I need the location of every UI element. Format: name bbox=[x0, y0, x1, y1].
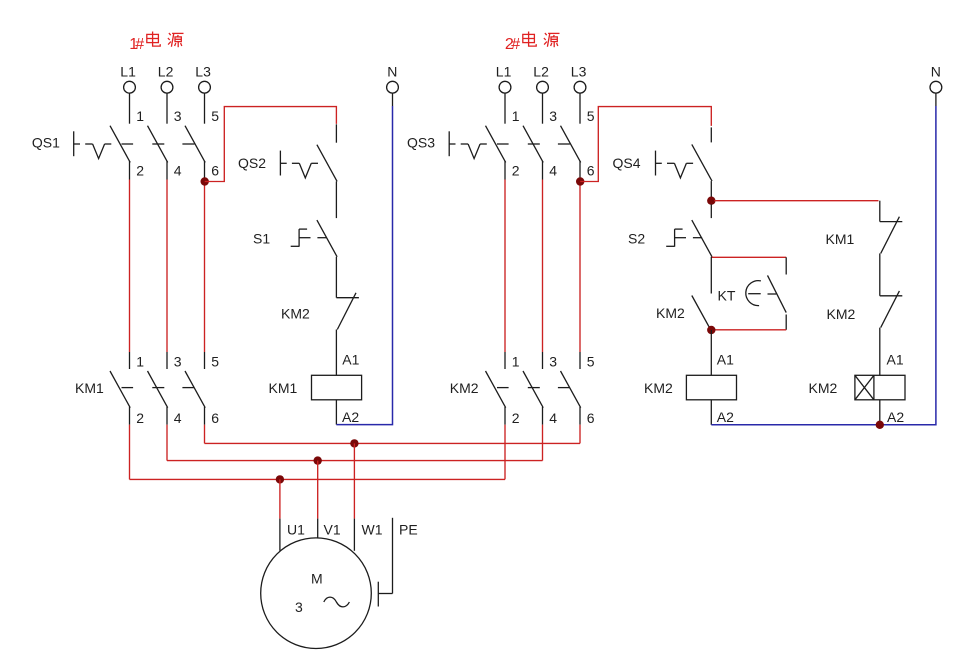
neutral terminal N (source 1) bbox=[387, 64, 399, 94]
wire node to KM2 coil A1 bbox=[710, 330, 712, 375]
terminal L1 (source 2) bbox=[496, 64, 512, 94]
svg-text:A1: A1 bbox=[342, 352, 359, 368]
wire tap to right branch (red) bbox=[714, 200, 878, 202]
wire QS2 to S1 bbox=[335, 181, 337, 218]
node pole6 tap (QS3 to QS4) bbox=[576, 177, 584, 185]
svg-text:KM2: KM2 bbox=[450, 380, 479, 396]
svg-text:6: 6 bbox=[211, 162, 219, 178]
wire motor V1 lead bbox=[317, 519, 319, 538]
svg-text:L2: L2 bbox=[533, 64, 549, 80]
svg-text:1: 1 bbox=[136, 108, 144, 124]
svg-text:5: 5 bbox=[211, 353, 219, 369]
svg-text:KM1: KM1 bbox=[826, 231, 855, 247]
svg-text:5: 5 bbox=[587, 108, 595, 124]
bus W (phase 3) bbox=[205, 442, 581, 444]
svg-text:A2: A2 bbox=[887, 409, 904, 425]
wire QS4 to tap node bbox=[710, 181, 712, 201]
svg-text:U1: U1 bbox=[287, 522, 305, 538]
svg-text:L3: L3 bbox=[571, 64, 587, 80]
wire QS3-6 tap to QS4 top bbox=[580, 107, 711, 182]
svg-text:4: 4 bbox=[549, 410, 557, 426]
wire KM2-6 down bbox=[579, 425, 581, 444]
contact KM2 NO auxiliary (self-hold) bbox=[656, 296, 712, 333]
svg-text:1: 1 bbox=[136, 353, 144, 369]
svg-text:2: 2 bbox=[136, 162, 144, 178]
label 2#电源 (source 2 name) bbox=[505, 32, 560, 53]
svg-text:V1: V1 bbox=[324, 522, 341, 538]
svg-text:#: # bbox=[135, 36, 144, 53]
svg-text:S1: S1 bbox=[253, 231, 270, 247]
svg-text:N: N bbox=[931, 64, 941, 80]
wire QS1-5 to KM1-5 bbox=[204, 180, 206, 353]
svg-text:A2: A2 bbox=[342, 409, 359, 425]
wire motor U1 feeder (red) bbox=[279, 479, 281, 518]
node bus U to motor bbox=[276, 475, 284, 483]
wire motor V1 feeder (red) bbox=[317, 461, 319, 519]
svg-text:2: 2 bbox=[512, 162, 520, 178]
disconnect switch QS1 (3-pole) bbox=[32, 93, 219, 179]
svg-text:A1: A1 bbox=[717, 352, 734, 368]
svg-text:3: 3 bbox=[174, 108, 182, 124]
svg-text:6: 6 bbox=[587, 162, 595, 178]
wire S2 to KM2 NO contact bbox=[710, 257, 712, 294]
svg-text:PE: PE bbox=[399, 522, 418, 538]
svg-text:N: N bbox=[387, 64, 397, 80]
svg-text:1: 1 bbox=[512, 108, 520, 124]
wire KM1 coil A2 to N (blue) bbox=[336, 106, 392, 425]
node pole6 tap (QS1 to QS2) bbox=[201, 177, 209, 185]
wire QS3-3 to KM2-3 bbox=[542, 180, 544, 353]
contact KM2 NC auxiliary (right) bbox=[827, 291, 903, 328]
svg-text:3: 3 bbox=[174, 353, 182, 369]
svg-text:4: 4 bbox=[549, 162, 557, 178]
disconnect switch QS3 (3-pole) bbox=[407, 93, 595, 179]
contact KM2 NC auxiliary (left) bbox=[281, 293, 359, 330]
svg-text:A2: A2 bbox=[717, 409, 734, 425]
coil KM2 (delayed, with X box) bbox=[809, 375, 906, 400]
bus U (phase 1) bbox=[130, 478, 506, 480]
svg-text:3: 3 bbox=[295, 599, 303, 615]
wire motor W1 lead bbox=[353, 519, 355, 551]
pushbutton S1 bbox=[253, 220, 337, 257]
terminal L1 (source 1) bbox=[120, 64, 136, 94]
svg-text:5: 5 bbox=[587, 353, 595, 369]
wire N2 stub bbox=[935, 93, 937, 106]
svg-text:6: 6 bbox=[587, 410, 595, 426]
node bus V to motor bbox=[314, 456, 322, 464]
coil KM2 bbox=[644, 375, 737, 400]
wire KM2-2 down bbox=[504, 425, 506, 480]
svg-text:1: 1 bbox=[512, 353, 520, 369]
terminal L2 (source 2) bbox=[533, 64, 549, 94]
disconnect switch QS4 (control, 1-pole) bbox=[613, 127, 713, 181]
wire motor W1 feeder (red) bbox=[353, 443, 355, 518]
svg-text:KM2: KM2 bbox=[827, 306, 856, 322]
svg-text:A1: A1 bbox=[887, 352, 904, 368]
node bus W to motor bbox=[350, 439, 358, 447]
terminal L2 (source 1) bbox=[158, 64, 174, 94]
disconnect switch QS2 (control, 1-pole) bbox=[238, 124, 337, 181]
svg-text:3: 3 bbox=[549, 353, 557, 369]
svg-text:KT: KT bbox=[718, 288, 736, 304]
wire KM1-6 down bbox=[204, 425, 206, 444]
svg-text:L1: L1 bbox=[496, 64, 512, 80]
svg-text:QS4: QS4 bbox=[613, 155, 641, 171]
svg-text:2: 2 bbox=[512, 410, 520, 426]
wire KM2 NC to KM1 coil A1 bbox=[335, 330, 337, 376]
terminal L3 (source 2) bbox=[571, 64, 587, 94]
svg-text:L3: L3 bbox=[195, 64, 211, 80]
wire KM1-2 down bbox=[129, 425, 131, 480]
svg-text:KM2: KM2 bbox=[809, 380, 838, 396]
svg-text:L1: L1 bbox=[120, 64, 136, 80]
motor M 3~ bbox=[261, 538, 372, 649]
svg-text:L2: L2 bbox=[158, 64, 174, 80]
svg-text:M: M bbox=[311, 571, 323, 587]
svg-text:#: # bbox=[511, 36, 520, 53]
ground PE connection bbox=[378, 518, 392, 607]
wire tap to S2 bbox=[710, 204, 712, 218]
svg-text:QS2: QS2 bbox=[238, 155, 266, 171]
svg-text:QS1: QS1 bbox=[32, 135, 60, 151]
wire KM1 NC to KM2 NC bbox=[879, 253, 881, 295]
label 1#电源 (source 1 name) bbox=[129, 32, 183, 53]
timer contact KT (delay close) bbox=[718, 257, 787, 330]
contactor KM1 main contacts (3-pole) bbox=[75, 352, 219, 426]
svg-text:KM2: KM2 bbox=[281, 306, 310, 322]
node KM2 NO bottom bbox=[707, 326, 715, 334]
node KM2 delay coil to N bus bbox=[876, 421, 884, 429]
bus V (phase 2) bbox=[167, 460, 543, 462]
wire KM2 coil A2 down bbox=[710, 400, 712, 425]
wire S2 to KT branch (red) bbox=[711, 256, 786, 258]
svg-text:KM1: KM1 bbox=[269, 380, 298, 396]
svg-text:S2: S2 bbox=[628, 231, 645, 247]
wire S1 to KM2 NC contact bbox=[335, 257, 337, 298]
coil KM1 bbox=[269, 375, 362, 400]
wire KM1-4 down bbox=[166, 425, 168, 461]
wire KM2 delay coil A2 down bbox=[879, 400, 881, 425]
svg-text:KM2: KM2 bbox=[644, 380, 673, 396]
svg-text:QS3: QS3 bbox=[407, 135, 435, 151]
wire right branch top bbox=[879, 201, 881, 222]
wire KM2-4 down bbox=[542, 425, 544, 461]
wire control N bus (blue) bbox=[711, 106, 936, 425]
svg-text:6: 6 bbox=[211, 410, 219, 426]
wire N1 stub bbox=[392, 93, 394, 106]
wire QS3-5 to KM2-5 bbox=[579, 180, 581, 353]
svg-text:3: 3 bbox=[549, 108, 557, 124]
wire KT bottom to node (red) bbox=[711, 329, 786, 331]
svg-text:KM2: KM2 bbox=[656, 305, 685, 321]
terminal L3 (source 1) bbox=[195, 64, 211, 94]
svg-text:4: 4 bbox=[174, 410, 182, 426]
contact KM1 NC auxiliary (interlock) bbox=[826, 217, 903, 254]
pushbutton S2 bbox=[628, 220, 712, 257]
contactor KM2 main contacts (3-pole) bbox=[450, 352, 595, 426]
wire QS1-3 to KM1-3 bbox=[166, 180, 168, 353]
node QS4 bottom tap bbox=[707, 197, 715, 205]
wire QS1-6 tap to QS2 top bbox=[205, 107, 337, 182]
svg-text:4: 4 bbox=[174, 162, 182, 178]
neutral terminal N (source 2) bbox=[930, 64, 942, 94]
svg-text:5: 5 bbox=[211, 108, 219, 124]
wire KM1 coil A2 down bbox=[335, 400, 337, 425]
wire QS1-1 to KM1-1 bbox=[129, 180, 131, 353]
wire QS3-1 to KM2-1 bbox=[504, 180, 506, 353]
svg-text:2: 2 bbox=[136, 410, 144, 426]
svg-text:W1: W1 bbox=[362, 522, 383, 538]
wire KM2 NC to KM2 delay coil A1 bbox=[879, 328, 881, 376]
svg-text:KM1: KM1 bbox=[75, 380, 104, 396]
wire motor U1 lead bbox=[279, 519, 281, 551]
